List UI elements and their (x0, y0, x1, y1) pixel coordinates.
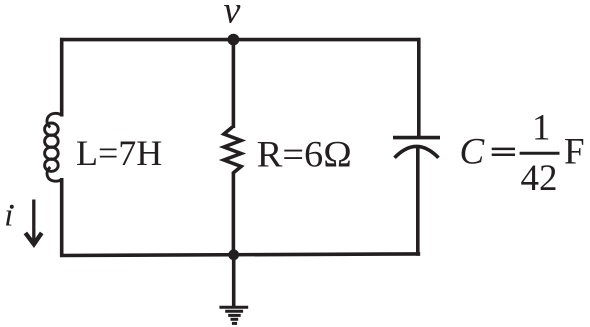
svg-text:ı: ı (4, 198, 13, 234)
wire right vertical upper (417, 38, 421, 138)
resistor R1 zigzag (224, 127, 241, 174)
wire middle vertical upper (232, 39, 236, 128)
wire middle vertical lower (232, 173, 236, 257)
wire bottom horizontal (60, 254, 420, 256)
svg-text:v: v (224, 0, 241, 32)
svg-text:L=7H: L=7H (76, 133, 162, 173)
equation equals sign (492, 149, 515, 155)
wire right vertical lower (416, 147, 420, 256)
bottom junction dot (228, 249, 239, 260)
svg-text:C: C (460, 132, 486, 173)
ground symbol (219, 307, 248, 323)
wire to ground (232, 255, 236, 307)
svg-text:R=6Ω: R=6Ω (257, 135, 352, 176)
capacitor C1 top plate (393, 136, 440, 140)
dot of label i (10, 205, 14, 209)
node v junction dot (228, 34, 240, 46)
wire top horizontal (60, 38, 420, 42)
current arrow down (25, 200, 41, 245)
fraction bar (520, 152, 560, 155)
capacitor C1 curved plate (395, 146, 439, 157)
svg-text:42: 42 (521, 158, 558, 199)
label C = 1/42 F equation (460, 108, 585, 200)
wire left vertical upper (60, 38, 64, 117)
wire left vertical lower (60, 178, 64, 257)
svg-text:F: F (564, 132, 585, 173)
svg-text:1: 1 (532, 108, 551, 149)
inductor L1 coil (45, 113, 62, 181)
